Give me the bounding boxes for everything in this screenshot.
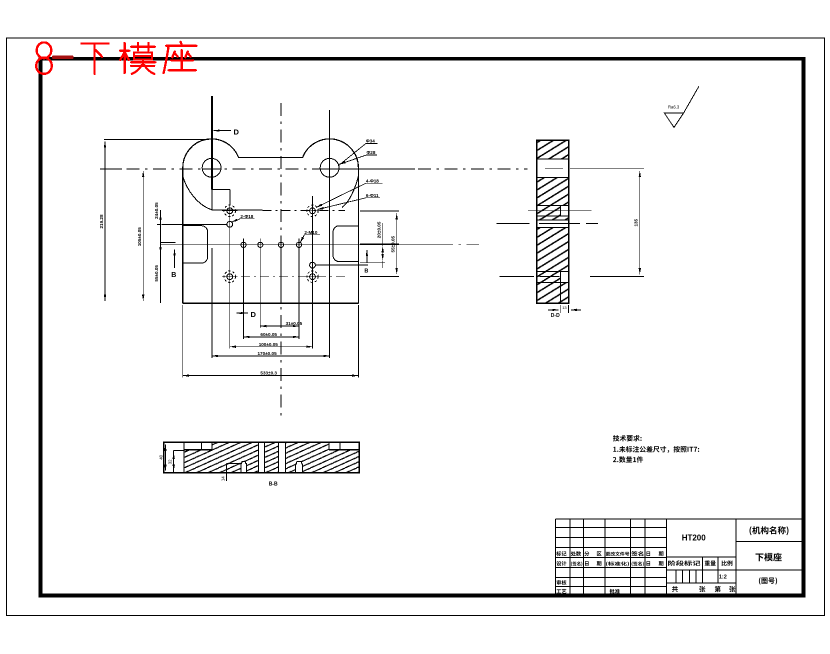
bolt circle c3: [278, 242, 283, 247]
left section horizontals: [555, 528, 666, 587]
hatch band 4: [537, 283, 569, 303]
dimension 40 left: [164, 445, 166, 471]
boss edge left S-curve: [183, 176, 212, 210]
plate edge extensions below: [183, 248, 359, 378]
hatch band 3b left of notch: [537, 271, 561, 282]
svg-text:219.28: 219.28: [99, 214, 104, 228]
counterbore hole A4: [305, 269, 321, 284]
svg-text:533±0.3: 533±0.3: [260, 371, 277, 376]
dimension 105 left: [142, 171, 144, 301]
title glyph xia: [81, 43, 108, 73]
svg-text:40: 40: [159, 454, 164, 459]
plate outline: [183, 139, 359, 303]
slot cell lines right: [329, 449, 359, 451]
leader phi34: [338, 144, 377, 166]
counterbore hole A3: [222, 269, 238, 284]
left block divider: [183, 442, 185, 473]
section D cut line thick: [211, 96, 213, 189]
outline: [164, 442, 360, 473]
plate bottom edge thickening: [183, 303, 359, 305]
svg-text:6-Φ11: 6-Φ11: [366, 193, 379, 198]
section D arrow bottom: [237, 312, 249, 314]
leader 6-phi11: [318, 198, 381, 210]
plain hole B2: [310, 262, 316, 268]
dimension 135 right: [639, 171, 641, 274]
dimension 533 bottom: [183, 375, 359, 377]
middle column borders: [666, 519, 736, 595]
leader 4-phi18: [316, 183, 383, 207]
right column horizontals: [736, 542, 802, 570]
counterbore hole A1: [222, 203, 238, 219]
section outline: [537, 140, 569, 303]
bolt row line: [161, 244, 440, 246]
internal horizontal edges: [537, 159, 569, 283]
leader phi28: [340, 155, 378, 164]
svg-text:13: 13: [562, 305, 567, 310]
svg-text:55±0.05: 55±0.05: [154, 265, 159, 282]
pin 2: [296, 462, 303, 473]
white channel 2: [278, 442, 285, 473]
leader 2-phi18: [232, 219, 255, 222]
hatch band 3: [537, 227, 569, 271]
hatch band 2b left of notch: [537, 205, 561, 216]
surface roughness symbol: [664, 86, 699, 127]
bolt circle c2: [258, 242, 263, 247]
left step: [174, 451, 184, 473]
centerline lower hole row: [222, 276, 345, 278]
svg-text:1:2: 1:2: [719, 575, 727, 581]
white top-right slot cells: [329, 442, 359, 449]
hatch band 2: [537, 178, 569, 206]
svg-text:2-M10: 2-M10: [304, 230, 317, 235]
title glyph zuo: [164, 42, 197, 73]
title red text: [36, 42, 196, 74]
ear hole left: [202, 158, 221, 177]
boss edge right S-curve: [342, 176, 358, 208]
svg-text:D-D: D-D: [551, 313, 560, 319]
border inner thick frame: [41, 59, 804, 596]
dimension 60 bottom: [244, 336, 300, 338]
hole centerline y276: [500, 276, 560, 278]
leader 2-M10: [300, 235, 320, 243]
pin 1: [241, 461, 247, 473]
dimension 219.28 left: [104, 142, 106, 301]
svg-text:HT200: HT200: [682, 534, 707, 543]
svg-text:31±0.05: 31±0.05: [286, 321, 303, 326]
channel lines: [258, 442, 285, 473]
dimension 14 pin: [227, 464, 241, 481]
title glyph 8: [37, 42, 52, 58]
dimension 24/55 left chain: [160, 210, 162, 303]
svg-text:135: 135: [634, 218, 639, 226]
hole centerline y211: [528, 210, 592, 212]
section B arrow right: [366, 250, 368, 263]
svg-text:4-Φ18: 4-Φ18: [366, 178, 379, 183]
middle sub verticals: [676, 557, 718, 583]
ear circle cross right: [321, 168, 338, 170]
ear hole right: [320, 158, 339, 177]
plain hole B1: [227, 221, 233, 227]
hatch band 2c: [537, 216, 569, 220]
bolt circle c1: [241, 242, 246, 247]
dimension 100 bottom: [230, 346, 313, 348]
hole column line left: [229, 196, 231, 349]
dimension 65 right: [396, 213, 398, 274]
centerline horizontal main: [100, 168, 527, 170]
title dash: [54, 56, 73, 59]
dimension 170 bottom: [212, 355, 330, 357]
centerline inside section: [545, 168, 563, 170]
extension stubs left chain: [162, 225, 228, 243]
svg-text:Φ34: Φ34: [366, 139, 375, 144]
boss edge horizontal: [212, 209, 263, 211]
dimension 31 bottom: [260, 325, 299, 327]
svg-text:32: 32: [167, 459, 172, 464]
hatch body: [184, 442, 359, 473]
counterbore notch 2 and column: [560, 271, 562, 303]
svg-text:B-B: B-B: [269, 482, 278, 488]
slot right: [333, 226, 358, 262]
hole centerline y223: [496, 223, 598, 225]
white top-left slot cells: [184, 442, 212, 449]
counterbore hole A2: [305, 203, 321, 219]
slot left: [183, 226, 208, 263]
right edge extension stubs: [315, 211, 399, 277]
texts: [556, 526, 788, 594]
dimension 32 left: [173, 453, 175, 471]
centerline vertical main: [280, 103, 282, 420]
svg-text:Φ28: Φ28: [367, 150, 376, 155]
svg-text:Ra6.3: Ra6.3: [668, 104, 680, 109]
left section verticals: [570, 519, 666, 595]
dimension 13 bottom: [561, 305, 569, 313]
svg-text:105±0.05: 105±0.05: [137, 227, 142, 247]
centerline upper hole row: [263, 209, 346, 211]
svg-text:D: D: [234, 128, 240, 137]
title glyph mo: [120, 43, 155, 74]
svg-text:D: D: [251, 310, 257, 319]
section D arrow top: [214, 130, 232, 132]
svg-text:60±0.05: 60±0.05: [260, 332, 277, 337]
hole column line right: [312, 196, 314, 349]
technical notes: [613, 435, 699, 463]
svg-text:100±0.05: 100±0.05: [259, 342, 279, 347]
dimension 20 right: [382, 246, 384, 260]
bolt column extensions: [244, 239, 300, 339]
bolt circle c4: [296, 242, 301, 247]
ear circle cross left: [203, 168, 220, 170]
svg-text:24±0.05: 24±0.05: [154, 202, 159, 219]
svg-text:55±0.05: 55±0.05: [390, 235, 395, 252]
hatch band 1: [537, 140, 569, 159]
svg-text:2-Φ18: 2-Φ18: [240, 214, 253, 219]
counterbore notch 1: [560, 205, 562, 216]
ear right extension vertical: [329, 110, 331, 358]
svg-text:14: 14: [220, 476, 225, 481]
svg-text:20±0.05: 20±0.05: [376, 221, 381, 238]
extension to dim right: [570, 169, 644, 277]
centerline solid overlays: [104, 168, 415, 170]
table outer: [555, 519, 802, 595]
section B arrow left: [174, 250, 176, 269]
extension stub top tangent: [104, 138, 209, 140]
svg-text:B: B: [171, 272, 176, 279]
slot cell lines left: [184, 449, 212, 451]
white channel 1: [258, 442, 264, 473]
svg-text:170±0.05: 170±0.05: [258, 351, 278, 356]
svg-text:B: B: [364, 269, 368, 275]
